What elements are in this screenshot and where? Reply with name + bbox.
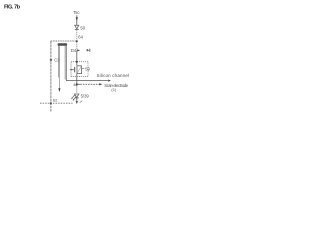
svg-text:Silicon channel: Silicon channel: [97, 73, 130, 78]
channel diagonal: [78, 67, 82, 73]
photodiode arrows: [71, 95, 76, 101]
scan electrode leader line with arrow: [77, 83, 103, 85]
arrow on Tsc wire: [76, 17, 78, 21]
svg-text:64: 64: [78, 34, 83, 39]
diode 50: [75, 25, 79, 29]
tick arrow on wire: [77, 49, 80, 51]
title FIG. 7b: [4, 5, 21, 11]
tube output line with arrow: [66, 80, 111, 82]
label 46: [73, 82, 78, 87]
svg-text:Tsc: Tsc: [73, 10, 79, 15]
gate bar: [74, 67, 76, 72]
text a-silicon channel: [97, 73, 130, 78]
svg-text:D4: D4: [71, 48, 77, 53]
svg-text:62: 62: [53, 97, 58, 102]
gate arrowhead: [70, 69, 72, 71]
electrode tube cap: [58, 43, 68, 45]
dashed wire node 64 down: [76, 42, 78, 50]
small mark right of photodiode bottom: [80, 101, 83, 103]
wire below photodiode with arrow: [76, 98, 78, 104]
text Scan electrode: [104, 83, 129, 88]
wire tick to transistor: [76, 50, 78, 65]
svg-text:FIG. 7b: FIG. 7b: [4, 5, 21, 11]
node 46: [76, 83, 78, 85]
terminal label Tsc: [73, 10, 79, 15]
symbol 42 on left wire: [50, 59, 53, 62]
node on box top: [76, 61, 78, 63]
dashed wire node 46 to photodiode: [76, 85, 78, 93]
transistor 59 body: [77, 66, 82, 74]
dashed bus line through node 62: [40, 102, 73, 104]
wire diode to node 64 (dashed): [76, 30, 78, 40]
photodiode 39: [75, 94, 79, 98]
wire transistor to node 46: [76, 74, 78, 85]
electrode tube left wall (double): [58, 46, 59, 89]
node 62 on left wire: [50, 102, 52, 104]
svg-text:5/39: 5/39: [81, 94, 90, 99]
arrow at bottom of tube left wall: [58, 88, 60, 92]
svg-text:50: 50: [80, 25, 85, 30]
gate lead: [71, 69, 74, 71]
label D4: [71, 48, 77, 53]
svg-text:59: 59: [85, 66, 90, 71]
connector mark arrow: [87, 49, 90, 52]
label 62: [53, 97, 58, 102]
label 539: [81, 94, 90, 99]
svg-text:(1): (1): [111, 87, 117, 92]
label 42: [54, 58, 60, 63]
svg-text:Scan electrode: Scan electrode: [104, 83, 129, 88]
wire from Tsc terminal: [76, 15, 78, 25]
text (1): [111, 87, 117, 92]
label 59: [85, 66, 90, 71]
label 64: [78, 34, 83, 39]
label 50: [80, 25, 85, 30]
node at 64: [76, 40, 78, 42]
left branch wire vertical: [50, 41, 52, 112]
leader tick to label 59: [82, 67, 85, 69]
electrode tube right wall (double): [65, 46, 66, 81]
dashed horizontal top wire: [51, 40, 77, 42]
dashed box around transistor 59: [71, 62, 88, 77]
